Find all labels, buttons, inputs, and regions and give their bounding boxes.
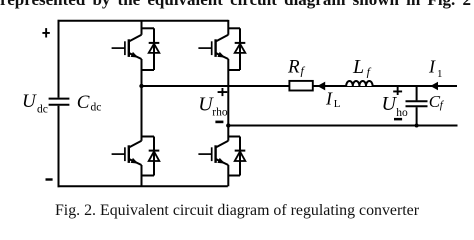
left source wire lower segment [58, 106, 60, 188]
diode D2 (top-right) top branch [228, 27, 240, 29]
right leg mid vertical (Q2 emitter to Q4 collector, crosses upper rail) [227, 59, 229, 141]
svg-text:I: I [325, 89, 333, 109]
resistor R_f body [289, 81, 312, 91]
current arrow I_L [317, 82, 325, 91]
svg-text:rho: rho [212, 107, 228, 119]
diode D3 vertical wire [153, 137, 155, 176]
node: C_f to lower rail [415, 124, 419, 128]
diode D3 (bottom-left) top branch [142, 136, 155, 138]
IGBT Q2 (top-right): collector vertical [227, 20, 229, 35]
svg-text:U: U [22, 91, 37, 112]
bottom rail [58, 185, 228, 187]
IGBT Q2 gate lead [198, 47, 211, 49]
node: right bridge midpoint [226, 123, 230, 127]
IGBT Q2 collector diagonal [216, 35, 228, 41]
IGBT Q1 emitter arrowhead [131, 52, 139, 58]
svg-text:C: C [77, 92, 90, 113]
svg-text:dc: dc [37, 103, 48, 115]
diode D1 cathode bar [149, 42, 160, 44]
svg-text:L: L [334, 98, 341, 110]
IGBT Q3 gate lead [112, 153, 125, 155]
svg-text:f: f [440, 99, 445, 111]
IGBT Q3 emitter diagonal [129, 159, 141, 165]
polarity - of U_rho [215, 121, 223, 124]
diode D3 cathode bar [149, 150, 160, 152]
IGBT Q1 main bar [128, 39, 130, 57]
diode D4 cathode bar [235, 150, 246, 152]
IGBT Q3 emitter vertical to bottom rail [141, 165, 143, 186]
polarity + of U_dc [42, 28, 49, 37]
left leg mid vertical (Q1 emitter to Q3 collector) [141, 59, 143, 141]
diode D4 vertical wire [239, 137, 241, 176]
IGBT Q4 emitter vertical to bottom rail [227, 165, 229, 186]
capacitor C_f plates [406, 101, 428, 106]
svg-text:I: I [428, 56, 436, 76]
diode D2 cathode bar [235, 42, 246, 44]
inductor L_f winding [346, 81, 372, 86]
IGBT Q4 emitter diagonal [216, 159, 228, 165]
wire: upper output rail right of R_f [313, 85, 457, 87]
IGBT Q1 (top-left): collector vertical [141, 21, 143, 35]
IGBT Q4 main bar [214, 145, 216, 163]
svg-text:1: 1 [437, 68, 443, 80]
left source wire upper segment [58, 20, 60, 98]
IGBT Q1 gate lead [112, 47, 125, 49]
IGBT Q4 emitter arrowhead [217, 158, 225, 164]
IGBT Q1 emitter diagonal [129, 53, 141, 59]
wire: lower output rail [228, 125, 457, 127]
IGBT Q3 (bottom-left) collector diagonal [129, 141, 141, 147]
cut-off paragraph text at top [0, 0, 474, 10]
diode D4 bottom branch [228, 175, 240, 177]
svg-text:U: U [382, 93, 398, 115]
diode D1 bottom branch [142, 69, 155, 71]
svg-text:f: f [367, 65, 372, 79]
polarity + of U_ho [393, 87, 402, 95]
svg-text:R: R [287, 57, 300, 78]
node: left bridge midpoint [139, 84, 143, 88]
polarity + of U_rho [218, 88, 228, 96]
IGBT Q4 gate lead [198, 153, 211, 155]
wire: C_f top branch [416, 86, 418, 100]
current arrow I_1 [430, 82, 438, 91]
IGBT Q3 gate bar [124, 147, 126, 161]
diode D2 bottom branch [228, 69, 240, 71]
diode D1 triangle [149, 44, 160, 53]
IGBT Q1 gate bar [124, 41, 126, 55]
IGBT Q2 emitter arrowhead [217, 52, 225, 58]
IGBT Q1 collector diagonal [129, 35, 141, 41]
IGBT Q4 gate bar [211, 147, 213, 161]
svg-text:f: f [301, 64, 306, 78]
wire: upper output rail left of R_f [142, 85, 290, 87]
diode D3 bottom branch [142, 175, 155, 177]
polarity - of U_dc [46, 178, 53, 180]
diode D4 triangle [235, 152, 246, 162]
top rail [58, 20, 229, 22]
polarity - of U_ho [394, 118, 402, 121]
IGBT Q2 emitter diagonal [216, 53, 228, 59]
diode D2 triangle [235, 44, 246, 53]
diode D2 vertical wire [239, 28, 241, 70]
IGBT Q2 gate bar [211, 41, 213, 55]
IGBT Q4 (bottom-right) collector diagonal [216, 141, 228, 147]
IGBT Q3 emitter arrowhead [131, 158, 139, 164]
IGBT Q2 main bar [214, 39, 216, 57]
diode D4 (bottom-right) top branch [228, 136, 240, 138]
figure caption [0, 202, 474, 220]
svg-text:dc: dc [91, 102, 102, 114]
diode D1 (top-left) top branch [142, 27, 155, 29]
capacitor C_dc plates [49, 99, 70, 105]
diode D1 vertical wire [153, 28, 155, 70]
IGBT Q3 main bar [128, 145, 130, 163]
diode D3 triangle [149, 152, 160, 162]
svg-text:L: L [352, 56, 364, 78]
wire: C_f bottom branch [416, 107, 418, 125]
svg-text:ho: ho [396, 107, 408, 119]
